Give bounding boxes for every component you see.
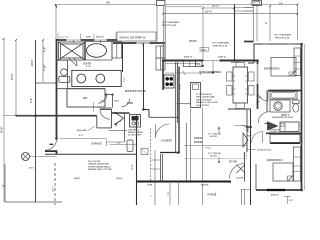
door arc laundry <box>156 124 170 138</box>
closet cabinets column <box>156 46 165 70</box>
wall bedroom2 north <box>266 132 302 134</box>
kitchen counter line <box>165 63 200 65</box>
node water heater note <box>128 129 143 137</box>
wall garage bottom <box>5 164 62 202</box>
door arc hall small <box>242 126 249 133</box>
svg-text:BOLLARD: BOLLARD <box>77 129 87 132</box>
wall foyer west <box>246 109 248 152</box>
wall garage west <box>35 40 37 202</box>
kitchen north wall with window <box>163 60 258 62</box>
wall kitchen/great divider <box>185 123 187 182</box>
wire great room dim line <box>184 145 247 147</box>
door arc bedroom3 <box>258 91 269 102</box>
svg-text:6040 SL: 6040 SL <box>218 56 227 59</box>
svg-text:SLOPE: SLOPE <box>210 136 217 138</box>
node kitchen note text block <box>196 94 218 107</box>
closet bedroom3 <box>294 48 301 76</box>
wall wc east <box>67 61 69 89</box>
wire dim y117 left <box>4 115 36 117</box>
node overhang note 3 <box>274 34 292 40</box>
node window label box 5040 <box>117 32 156 41</box>
svg-text:FINIS CEILING AND: FINIS CEILING AND <box>196 96 215 99</box>
wall front entry south <box>136 181 231 183</box>
svg-text:8'-4": 8'-4" <box>86 65 91 68</box>
svg-text:BATH: BATH <box>84 61 92 65</box>
wall bath north <box>56 39 117 41</box>
svg-text:9'-0" CEILING: 9'-0" CEILING <box>208 134 221 136</box>
wire left dim vertical x4 <box>3 39 5 202</box>
wall center vertical x136 <box>136 116 138 206</box>
bath2 vanity <box>270 100 290 112</box>
node overhang note 2 <box>212 42 230 48</box>
svg-text:17'-4": 17'-4" <box>205 147 211 150</box>
svg-text:BEDROOM 2: BEDROOM 2 <box>267 158 283 162</box>
wall master east <box>143 43 145 110</box>
svg-text:5'-2": 5'-2" <box>180 84 182 89</box>
node REF box <box>196 61 203 66</box>
node wall junction dots <box>35 39 303 191</box>
svg-text:PER TITLE 24: PER TITLE 24 <box>162 24 177 27</box>
svg-text:2020: 2020 <box>86 36 92 38</box>
wire label box verticals top <box>157 6 164 61</box>
svg-text:21'-2": 21'-2" <box>212 4 220 8</box>
wire dimension line top <box>56 4 298 6</box>
node linen door triangle <box>268 122 278 130</box>
dining chairs <box>227 63 255 109</box>
wire dim 21-2 <box>203 7 234 9</box>
door arc foyer entry <box>230 164 245 179</box>
svg-text:SHWR HEAD IN PLACE: SHWR HEAD IN PLACE <box>272 116 294 119</box>
wall garage north <box>45 153 137 155</box>
wall patio east post <box>234 5 236 61</box>
vanity counter with two sinks <box>72 70 121 86</box>
svg-text:19'-4": 19'-4" <box>205 10 213 14</box>
svg-text:WC: WC <box>83 96 87 100</box>
svg-text:7'-4": 7'-4" <box>123 78 126 82</box>
svg-text:GARAGE: GARAGE <box>91 143 102 146</box>
wall bath2 west <box>266 91 268 113</box>
node ceiling slope note up <box>208 134 221 139</box>
wall hall/bath2 divider <box>268 90 302 92</box>
svg-text:MASTER SUITE: MASTER SUITE <box>125 89 146 93</box>
bed bedroom2 <box>273 163 293 181</box>
svg-text:50 GAL PLATF: 50 GAL PLATF <box>128 134 142 137</box>
svg-text:ROOM: ROOM <box>194 140 202 144</box>
svg-text:4050 SL: 4050 SL <box>96 35 105 38</box>
svg-text:1/2" OVERHANG: 1/2" OVERHANG <box>162 21 180 24</box>
wall great room/hall top <box>228 108 251 110</box>
wall bedroom3 north <box>254 43 302 45</box>
wall shower east edge <box>84 42 86 61</box>
wire short dims right <box>234 8 254 12</box>
node garage note text <box>88 161 112 171</box>
svg-text:7'-8": 7'-8" <box>168 192 170 196</box>
wall divider master/garage <box>16 115 97 117</box>
wire chimney verticals <box>254 5 258 41</box>
door arc wic <box>98 95 107 104</box>
svg-text:16'-0": 16'-0" <box>53 186 55 192</box>
wire left dim vertical x16 <box>15 40 17 116</box>
wire left dim vertical x43 <box>42 40 44 82</box>
closet bedroom2 <box>294 147 301 181</box>
wall bedroom3 west L <box>248 44 254 63</box>
node wall section marker triangle <box>243 133 248 147</box>
wire dim bedroom2 <box>284 196 291 204</box>
node garage door dashed <box>54 163 56 205</box>
node dim tick slashes <box>3 4 299 188</box>
svg-text:5/8 X GYP BD: 5/8 X GYP BD <box>88 161 101 163</box>
node attic access note <box>247 149 256 151</box>
toilet WC <box>61 69 68 76</box>
wire connector lines <box>244 8 254 12</box>
door arc bedroom2 <box>252 132 263 143</box>
wall west main <box>56 40 58 139</box>
svg-text:FOYER: FOYER <box>229 162 237 164</box>
svg-text:24': 24' <box>106 1 110 5</box>
svg-text:16'-8": 16'-8" <box>1 127 4 134</box>
node window marks bath wall <box>66 39 107 41</box>
node ceiling slope note down <box>208 153 221 158</box>
svg-text:COATS: COATS <box>236 176 244 179</box>
svg-text:9'-0" CEILING: 9'-0" CEILING <box>208 153 221 155</box>
node chimney box top <box>157 1 166 6</box>
wall bath east <box>122 43 124 72</box>
svg-text:5040 SL OB TEMP GL: 5040 SL OB TEMP GL <box>120 35 147 39</box>
svg-text:LAUNDRY: LAUNDRY <box>161 140 173 143</box>
dining table <box>233 67 248 103</box>
water heater <box>130 115 141 128</box>
door arc bath <box>57 59 68 61</box>
bed bedroom3 <box>271 58 296 77</box>
svg-text:GREAT: GREAT <box>194 136 203 140</box>
wall under vanity <box>57 88 106 90</box>
wire great room west line <box>190 109 192 182</box>
svg-text:14': 14' <box>279 2 283 6</box>
node overhang note 1 <box>162 21 180 27</box>
wall bedroom2 west <box>255 164 257 190</box>
wire vertical x202 bottom <box>202 108 204 206</box>
wire dim 19-4 <box>163 13 298 15</box>
wall dining east <box>257 61 259 110</box>
wall entry verticals <box>161 154 163 182</box>
wall coats closet west <box>244 152 246 182</box>
bathtub <box>85 42 112 61</box>
wardrobe bedroom2 <box>270 135 300 143</box>
wire top right dim verticals <box>269 6 271 41</box>
svg-text:PORCH: PORCH <box>208 193 217 196</box>
door arc hall to garage <box>100 109 110 119</box>
door arc master entry <box>121 99 129 107</box>
wall hall stub <box>246 126 252 128</box>
wall master north <box>113 42 165 44</box>
svg-text:7'-10": 7'-10" <box>44 65 47 72</box>
counter edge vertical double <box>176 62 178 152</box>
svg-text:4040 SL: 4040 SL <box>271 194 280 197</box>
wall laundry north <box>149 116 179 118</box>
wall hall west <box>250 109 252 205</box>
svg-text:WALL TILE AND: WALL TILE AND <box>196 98 212 101</box>
bath2 tub <box>270 92 297 100</box>
svg-text:4'-2": 4'-2" <box>44 47 47 52</box>
svg-text:MORTAR SHELL TYP AND: MORTAR SHELL TYP AND <box>88 168 112 171</box>
wire dim bracket left of wall <box>93 102 95 112</box>
door chevron hall closet <box>115 113 123 124</box>
cabinet right of tub <box>112 42 122 59</box>
door arc garage side <box>45 139 57 151</box>
svg-text:KITCHEN/DINING: KITCHEN/DINING <box>200 70 221 74</box>
stove 4 burners <box>164 75 174 88</box>
wire dashed line entry <box>150 128 152 181</box>
wall laundry south <box>160 152 179 154</box>
svg-text:5'-2": 5'-2" <box>30 98 33 103</box>
wall bumpout top <box>36 82 57 84</box>
wall wh east <box>124 114 126 143</box>
svg-text:4040 SL: 4040 SL <box>184 56 193 59</box>
svg-text:PER TITLE 24: PER TITLE 24 <box>213 45 228 48</box>
svg-text:GARAGE CEILING AND: GARAGE CEILING AND <box>88 163 110 166</box>
svg-text:9'-6": 9'-6" <box>289 200 293 202</box>
svg-text:HOUSE GARAGE WALLS: HOUSE GARAGE WALLS <box>88 165 111 168</box>
wall kitchen west <box>162 43 164 61</box>
wall east main <box>301 44 303 190</box>
svg-text:[4050]: [4050] <box>117 177 123 180</box>
svg-text:SLOPE: SLOPE <box>210 156 217 158</box>
wall bedroom3 wing top connector <box>244 41 254 43</box>
svg-text:SEE MULTI ON FLOOR: SEE MULTI ON FLOOR <box>196 102 218 104</box>
walk-in closet room <box>67 89 105 107</box>
wire dim extension x56 top <box>55 5 57 41</box>
svg-text:1/2" OVERHANG: 1/2" OVERHANG <box>212 42 230 45</box>
node table placemat ticks <box>233 76 248 94</box>
node LINEN label <box>270 130 279 133</box>
bath2 shower <box>280 122 299 132</box>
svg-text:9'-0" CEILING HT: 9'-0" CEILING HT <box>196 94 213 96</box>
svg-text:1'-0" 7'-2": 1'-0" 7'-2" <box>59 37 69 39</box>
wire bollard dim line <box>60 139 136 146</box>
svg-text:22X30 ATT ACC: 22X30 ATT ACC <box>257 149 272 152</box>
bath2 toilet <box>293 100 300 104</box>
laundry sink <box>127 140 133 152</box>
svg-text:18'-8": 18'-8" <box>31 60 34 67</box>
svg-text:3'-0": 3'-0" <box>256 102 260 104</box>
svg-text:4'-0": 4'-0" <box>79 134 83 137</box>
svg-text:1/2" OVERHANG: 1/2" OVERHANG <box>274 34 292 37</box>
kitchen sink <box>183 61 195 67</box>
svg-text:20'-4": 20'-4" <box>131 164 134 170</box>
svg-text:16'-8": 16'-8" <box>11 74 14 81</box>
svg-text:4040: 4040 <box>201 49 207 52</box>
kitchen island <box>191 83 201 108</box>
wire dim line kitchen <box>165 72 213 74</box>
svg-text:PER TITLE 24: PER TITLE 24 <box>275 37 290 40</box>
door arc bath2 <box>258 112 269 123</box>
shower with X brace <box>59 42 86 60</box>
svg-text:PATIO: PATIO <box>189 39 197 43</box>
wire porch edge lines <box>242 189 252 205</box>
bollard circle <box>22 153 30 161</box>
svg-text:BEDROOM 3: BEDROOM 3 <box>264 67 280 71</box>
node chimney box top right <box>252 1 262 6</box>
svg-text:[4050]: [4050] <box>74 177 80 180</box>
wall bedroom2 south with window <box>256 189 302 191</box>
door arc hall nook <box>116 121 122 127</box>
node patio label box <box>200 48 209 52</box>
svg-text:PLAN NOTES: PLAN NOTES <box>196 104 210 107</box>
wall laundry east <box>178 67 180 153</box>
